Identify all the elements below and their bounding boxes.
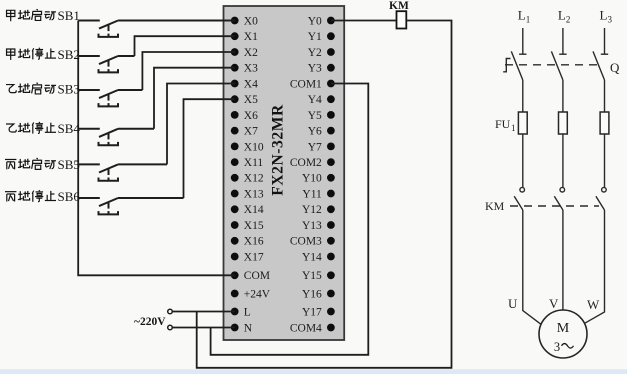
pin Y7 (PLC right)	[308, 141, 335, 153]
contact KM pole 3	[596, 187, 606, 210]
pin X12 (PLC left)	[231, 173, 264, 185]
pushbutton SB6	[78, 198, 183, 214]
pin X17 (PLC left)	[231, 251, 264, 263]
label SB3	[6, 82, 80, 97]
pin +24V (PLC left)	[231, 288, 271, 300]
label SB4	[6, 121, 80, 136]
pushbutton SB1	[78, 21, 235, 37]
svg-text:X1: X1	[244, 31, 258, 43]
pin COM4 (PLC right)	[290, 322, 335, 334]
svg-text:X4: X4	[244, 78, 258, 90]
pin L (PLC left)	[231, 306, 251, 318]
pin Y17 (PLC right)	[302, 306, 335, 318]
node L1	[518, 8, 531, 25]
wire: SB3 to X2	[142, 52, 234, 90]
label SB1	[7, 8, 80, 23]
svg-text:X6: X6	[244, 110, 258, 122]
pin COM (PLC left)	[231, 270, 270, 282]
svg-text:Y10: Y10	[302, 173, 322, 185]
svg-text:3: 3	[554, 340, 560, 354]
pin Y13 (PLC right)	[302, 220, 335, 232]
fuse FU1 pole 2	[559, 112, 568, 187]
pin X10 (PLC left)	[231, 141, 264, 153]
svg-text:X5: X5	[244, 94, 258, 106]
svg-text:Y3: Y3	[308, 63, 322, 75]
node ~220V terminal N	[168, 325, 173, 330]
switch Q pole 1	[511, 51, 526, 112]
motor M 3~	[539, 310, 587, 358]
pin X15 (PLC left)	[231, 220, 264, 232]
pin X3 (PLC left)	[231, 63, 258, 75]
pin X4 (PLC left)	[231, 78, 258, 90]
wire: COM1 to N loop (inner)	[211, 84, 369, 355]
svg-text:X15: X15	[244, 220, 264, 232]
svg-text:FU: FU	[495, 117, 511, 131]
pin Y1 (PLC right)	[308, 31, 335, 43]
svg-text:W: W	[587, 297, 600, 312]
pin X0 (PLC left)	[231, 15, 258, 27]
pushbutton SB4	[78, 129, 154, 145]
label SB6	[5, 189, 80, 204]
svg-text:Y0: Y0	[308, 15, 322, 27]
svg-text:COM3: COM3	[290, 236, 322, 248]
wire: phase V drop	[562, 210, 564, 310]
pin X16 (PLC left)	[231, 236, 264, 248]
contact KM linkage (dashed)	[510, 205, 599, 207]
label SB5	[5, 157, 80, 172]
switch Q handle	[503, 59, 510, 72]
pin Y0 (PLC right)	[308, 15, 335, 27]
svg-text:Y5: Y5	[308, 110, 322, 122]
wire: phase U drop	[523, 210, 541, 324]
svg-text:X17: X17	[244, 251, 264, 263]
pin COM2 (PLC right)	[290, 157, 335, 169]
pin N (PLC left)	[231, 322, 253, 334]
wire: L3 drop	[604, 28, 606, 54]
svg-text:1: 1	[511, 123, 516, 133]
svg-text:X10: X10	[244, 141, 264, 153]
pin Y15 (PLC right)	[302, 270, 335, 282]
svg-text:Y13: Y13	[302, 220, 322, 232]
svg-text:+24V: +24V	[244, 288, 271, 300]
node L3	[600, 8, 613, 25]
svg-text:KM: KM	[485, 199, 505, 213]
wire: Y0 to KM coil	[331, 20, 397, 22]
pushbutton SB3	[78, 90, 142, 106]
coil KM	[397, 11, 407, 28]
pin Y5 (PLC right)	[308, 110, 335, 122]
pin Y14 (PLC right)	[302, 251, 335, 263]
pin COM1 (PLC right)	[290, 78, 335, 90]
svg-text:~220V: ~220V	[134, 316, 166, 328]
svg-text:L: L	[558, 8, 566, 23]
node ~220V terminal L	[168, 309, 173, 314]
pushbutton SB2	[78, 56, 134, 72]
svg-text:L: L	[600, 8, 608, 23]
wire: N supply	[172, 327, 234, 329]
fuse FU1 pole 3	[600, 112, 609, 187]
svg-text:X7: X7	[244, 126, 258, 138]
svg-text:Y4: Y4	[308, 94, 322, 106]
pin X1 (PLC left)	[231, 31, 258, 43]
switch Q pole 2	[551, 51, 566, 112]
svg-text:L: L	[244, 306, 251, 318]
svg-text:X11: X11	[244, 157, 264, 169]
svg-text:U: U	[508, 296, 518, 311]
wire: L2 drop	[562, 28, 564, 54]
svg-text:V: V	[549, 296, 559, 311]
svg-text:Y15: Y15	[302, 270, 322, 282]
svg-text:1: 1	[526, 15, 531, 25]
svg-text:X2: X2	[244, 47, 258, 59]
pin X6 (PLC left)	[231, 110, 258, 122]
wire: SB2 to X1	[135, 36, 235, 56]
wire: SB6 to X5	[184, 99, 235, 198]
wire: L1 drop	[522, 28, 524, 54]
svg-text:SB6: SB6	[58, 189, 81, 204]
svg-text:X14: X14	[244, 204, 264, 216]
pin Y2 (PLC right)	[308, 47, 335, 59]
pin Y3 (PLC right)	[308, 63, 335, 75]
svg-text:Y7: Y7	[308, 141, 322, 153]
svg-text:COM4: COM4	[290, 322, 322, 334]
PLC U1 FX2N-32MR body	[224, 6, 345, 340]
svg-text:COM: COM	[244, 270, 270, 282]
svg-text:N: N	[244, 322, 253, 334]
svg-text:SB3: SB3	[58, 82, 80, 97]
pin X2 (PLC left)	[231, 47, 258, 59]
switch Q pole 3	[593, 51, 608, 112]
pin X14 (PLC left)	[231, 204, 264, 216]
svg-text:COM1: COM1	[290, 78, 322, 90]
wire: phase W drop	[585, 210, 605, 323]
pin COM3 (PLC right)	[290, 236, 335, 248]
svg-text:Y2: Y2	[308, 47, 322, 59]
wire: KM coil to L loop (outer)	[197, 21, 452, 368]
svg-text:3: 3	[608, 15, 613, 25]
bottom page strip	[0, 369, 627, 374]
pin X13 (PLC left)	[231, 188, 264, 200]
pin Y12 (PLC right)	[302, 204, 335, 216]
pushbutton SB5	[78, 164, 167, 180]
svg-text:SB2: SB2	[58, 47, 80, 62]
wire: L supply	[172, 311, 234, 313]
label FU1	[495, 117, 516, 133]
pin Y11 (PLC right)	[302, 188, 334, 200]
svg-text:X0: X0	[244, 15, 258, 27]
pin Y4 (PLC right)	[308, 94, 335, 106]
wire: SB4 to X3	[154, 68, 235, 129]
svg-text:KM: KM	[389, 0, 409, 12]
svg-text:Y11: Y11	[302, 188, 322, 200]
svg-text:SB4: SB4	[58, 121, 81, 136]
svg-text:Y16: Y16	[302, 288, 322, 300]
node L2	[558, 8, 571, 25]
svg-text:2: 2	[566, 15, 571, 25]
switch Q linkage (dashed)	[505, 64, 599, 66]
pin Y10 (PLC right)	[302, 173, 335, 185]
svg-text:Y1: Y1	[308, 31, 322, 43]
fuse FU1 pole 1	[518, 112, 527, 187]
pin X5 (PLC left)	[231, 94, 258, 106]
svg-text:Q: Q	[610, 60, 620, 75]
contact KM pole 2	[554, 187, 564, 210]
svg-text:X16: X16	[244, 236, 264, 248]
svg-text:Y17: Y17	[302, 306, 322, 318]
pin X11 (PLC left)	[231, 157, 264, 169]
svg-text:COM2: COM2	[290, 157, 322, 169]
wire: SB5 to X4	[167, 84, 235, 165]
svg-text:X13: X13	[244, 188, 264, 200]
svg-text:L: L	[518, 8, 526, 23]
svg-text:M: M	[557, 321, 570, 336]
svg-text:Y14: Y14	[302, 251, 322, 263]
svg-text:X3: X3	[244, 63, 258, 75]
pin Y6 (PLC right)	[308, 126, 335, 138]
svg-text:Y12: Y12	[302, 204, 322, 216]
svg-text:Y6: Y6	[308, 126, 322, 138]
svg-text:SB1: SB1	[58, 8, 80, 23]
pin Y16 (PLC right)	[302, 288, 335, 300]
contact KM pole 1	[514, 187, 524, 210]
svg-text:FX2N-32MR: FX2N-32MR	[269, 104, 286, 196]
label SB2	[7, 47, 80, 62]
wire: left common bus to COM	[78, 21, 235, 276]
svg-text:X12: X12	[244, 173, 264, 185]
svg-text:SB5: SB5	[58, 157, 80, 172]
pin X7 (PLC left)	[231, 126, 258, 138]
